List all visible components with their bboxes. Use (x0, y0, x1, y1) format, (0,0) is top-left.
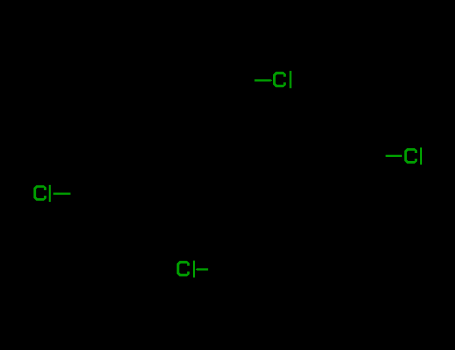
atom label Cl (right): letter l (420, 148, 422, 165)
atom label Cl (bottom): letter C (177, 261, 190, 277)
pointed tip at left end of bottom bond stub (196, 268, 198, 270)
atom label Cl (top): letter l (290, 71, 292, 88)
atom label Cl (bottom): letter l (193, 261, 195, 278)
pointed tip at right end of top bond stub (271, 79, 273, 81)
bond stub to Cl (right) (386, 155, 402, 157)
bond stub to Cl (left) (53, 193, 70, 195)
atom label Cl (left): letter C (34, 185, 47, 201)
bond stub to Cl (bottom) (197, 268, 208, 270)
atom label Cl (left): letter l (49, 185, 51, 202)
atom label Cl (top): letter C (273, 72, 286, 88)
atom label Cl (right): letter C (404, 148, 417, 164)
bond stub to Cl (top) (255, 79, 271, 81)
